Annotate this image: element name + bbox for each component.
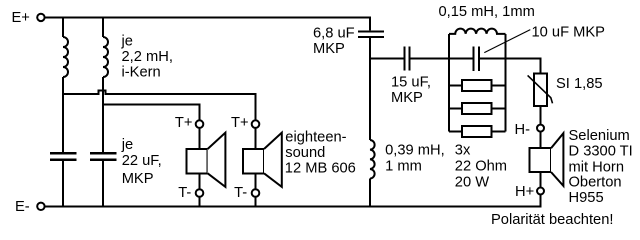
inductor 0,15 mH top branch [449, 29, 506, 34]
speaker 1 box [186, 149, 207, 173]
wire drop to coil L2 [102, 17, 104, 38]
svg-text:je: je [121, 137, 133, 153]
svg-text:10 uF MKP: 10 uF MKP [532, 25, 606, 41]
resistor R1 22 Ohm body [462, 80, 492, 91]
resistor R2 22 Ohm leads [449, 108, 506, 110]
svg-text:0,15 mH, 1mm: 0,15 mH, 1mm [439, 4, 535, 20]
wire T+1 to speaker 1 box [199, 128, 201, 150]
terminal T- speaker 1 [196, 189, 204, 197]
terminal H- [537, 125, 544, 132]
wire T+2 to speaker 2 box [255, 128, 257, 150]
svg-text:2,2 mH,: 2,2 mH, [122, 49, 173, 65]
terminal E+ [37, 14, 44, 21]
wire left rail to 10uF [449, 58, 472, 60]
svg-text:MKP: MKP [313, 41, 345, 57]
svg-text:6,8 uF: 6,8 uF [313, 25, 355, 41]
resistor R1 22 Ohm leads [449, 85, 506, 87]
capacitor 10 uF plates [473, 46, 479, 71]
svg-text:D 3300 TI: D 3300 TI [569, 144, 633, 160]
svg-text:20 W: 20 W [455, 175, 489, 191]
svg-text:T-: T- [178, 185, 191, 201]
svg-text:Oberton: Oberton [569, 175, 622, 191]
capacitor 6,8 uF plates [358, 32, 384, 38]
capacitor 15 uF plates [405, 47, 410, 71]
svg-text:15 uF,: 15 uF, [391, 75, 431, 91]
svg-text:H955: H955 [569, 190, 604, 206]
svg-text:T+: T+ [175, 115, 193, 131]
svg-text:22 uF,: 22 uF, [122, 153, 162, 169]
svg-text:H+: H+ [515, 184, 534, 200]
wire 10uF to right rail [480, 58, 505, 60]
svg-text:MKP: MKP [391, 90, 423, 106]
wire T-2 to bottom rail [255, 197, 257, 207]
wire C2 bottom to ground rail [102, 161, 104, 205]
inductor 2,2 mH #1 [63, 37, 68, 77]
pointer line from 10 uF MKP label to capacitor [484, 30, 530, 53]
wire 15uF to RLC network left rail [411, 58, 449, 60]
capacitor 22 uF #1 plates [50, 153, 77, 159]
svg-text:22 Ohm: 22 Ohm [455, 159, 507, 175]
svg-text:E+: E+ [12, 10, 30, 26]
wire C1 bottom to ground rail [62, 161, 64, 205]
svg-text:eighteen-: eighteen- [285, 130, 346, 146]
svg-text:H-: H- [515, 122, 531, 138]
speaker 2 box [243, 149, 264, 173]
wire 0,39mH bottom to bottom rail [369, 179, 371, 206]
terminal T- speaker 2 [252, 189, 260, 197]
wire H- to horn speaker box [540, 132, 542, 149]
wire T-1 to bottom rail [199, 197, 201, 207]
svg-text:1 mm: 1 mm [385, 159, 422, 175]
wire from L1 bottom through node to capacitor C1 [62, 77, 64, 152]
wire right rail to fuse [506, 59, 541, 74]
wire from L2 bottom through node to capacitor C2 [102, 77, 104, 152]
svg-text:0,39 mH,: 0,39 mH, [385, 143, 445, 159]
wire 6,8uF to mid rail and down to 0,39mH coil [369, 38, 371, 140]
terminal H+ [537, 188, 544, 195]
speaker 1 horn [208, 133, 226, 187]
wire mid rail to 15uF [370, 58, 403, 60]
wire bottom rail from E- to H+ [45, 195, 541, 207]
svg-text:T-: T- [234, 185, 247, 201]
svg-text:SI 1,85: SI 1,85 [556, 76, 603, 92]
wire fuse bottom to H- [540, 106, 542, 125]
wire line A with hop over L2 wire, to T+ of speaker 2 [63, 90, 256, 120]
svg-text:T+: T+ [231, 115, 249, 131]
resistor R3 22 Ohm leads [449, 131, 506, 133]
svg-text:MKP: MKP [122, 171, 154, 187]
svg-text:i-Kern: i-Kern [122, 64, 161, 80]
wire top rail from E+ to 6,8uF branch [45, 18, 370, 31]
svg-text:Polarität beachten!: Polarität beachten! [491, 212, 613, 228]
resistor R2 22 Ohm body [462, 103, 492, 114]
svg-text:mit Horn: mit Horn [569, 159, 625, 175]
terminal T+ speaker 2 [252, 120, 260, 128]
node left rail of RLC network [448, 34, 450, 132]
svg-text:3x: 3x [455, 143, 471, 159]
fuse SI 1,85 body [534, 74, 547, 107]
wire speaker 2 box to T-2 [255, 173, 257, 189]
inductor 0,39 mH [370, 140, 375, 179]
terminal E- [37, 203, 44, 210]
wire speaker 1 box to T-1 [199, 173, 201, 189]
resistor R3 22 Ohm body [462, 126, 492, 137]
wire horn speaker box to H+ [540, 172, 542, 188]
inductor 2,2 mH #2 [103, 37, 108, 77]
node right rail of RLC network [505, 34, 507, 132]
svg-text:Selenium: Selenium [569, 128, 630, 144]
svg-text:12 MB 606: 12 MB 606 [285, 161, 356, 177]
speaker 2 horn [264, 133, 282, 187]
terminal T+ speaker 1 [196, 120, 204, 128]
wire line B to T+ of speaker 1 [103, 105, 200, 121]
wire drop to coil L1 [62, 17, 64, 38]
svg-text:E-: E- [15, 199, 30, 215]
horn speaker horn [551, 133, 563, 186]
capacitor 22 uF #2 plates [90, 153, 117, 159]
svg-text:sound: sound [285, 145, 325, 161]
fuse SI 1,85 diagonal stroke [528, 75, 553, 103]
horn speaker box [530, 148, 552, 172]
svg-text:je: je [121, 33, 133, 49]
